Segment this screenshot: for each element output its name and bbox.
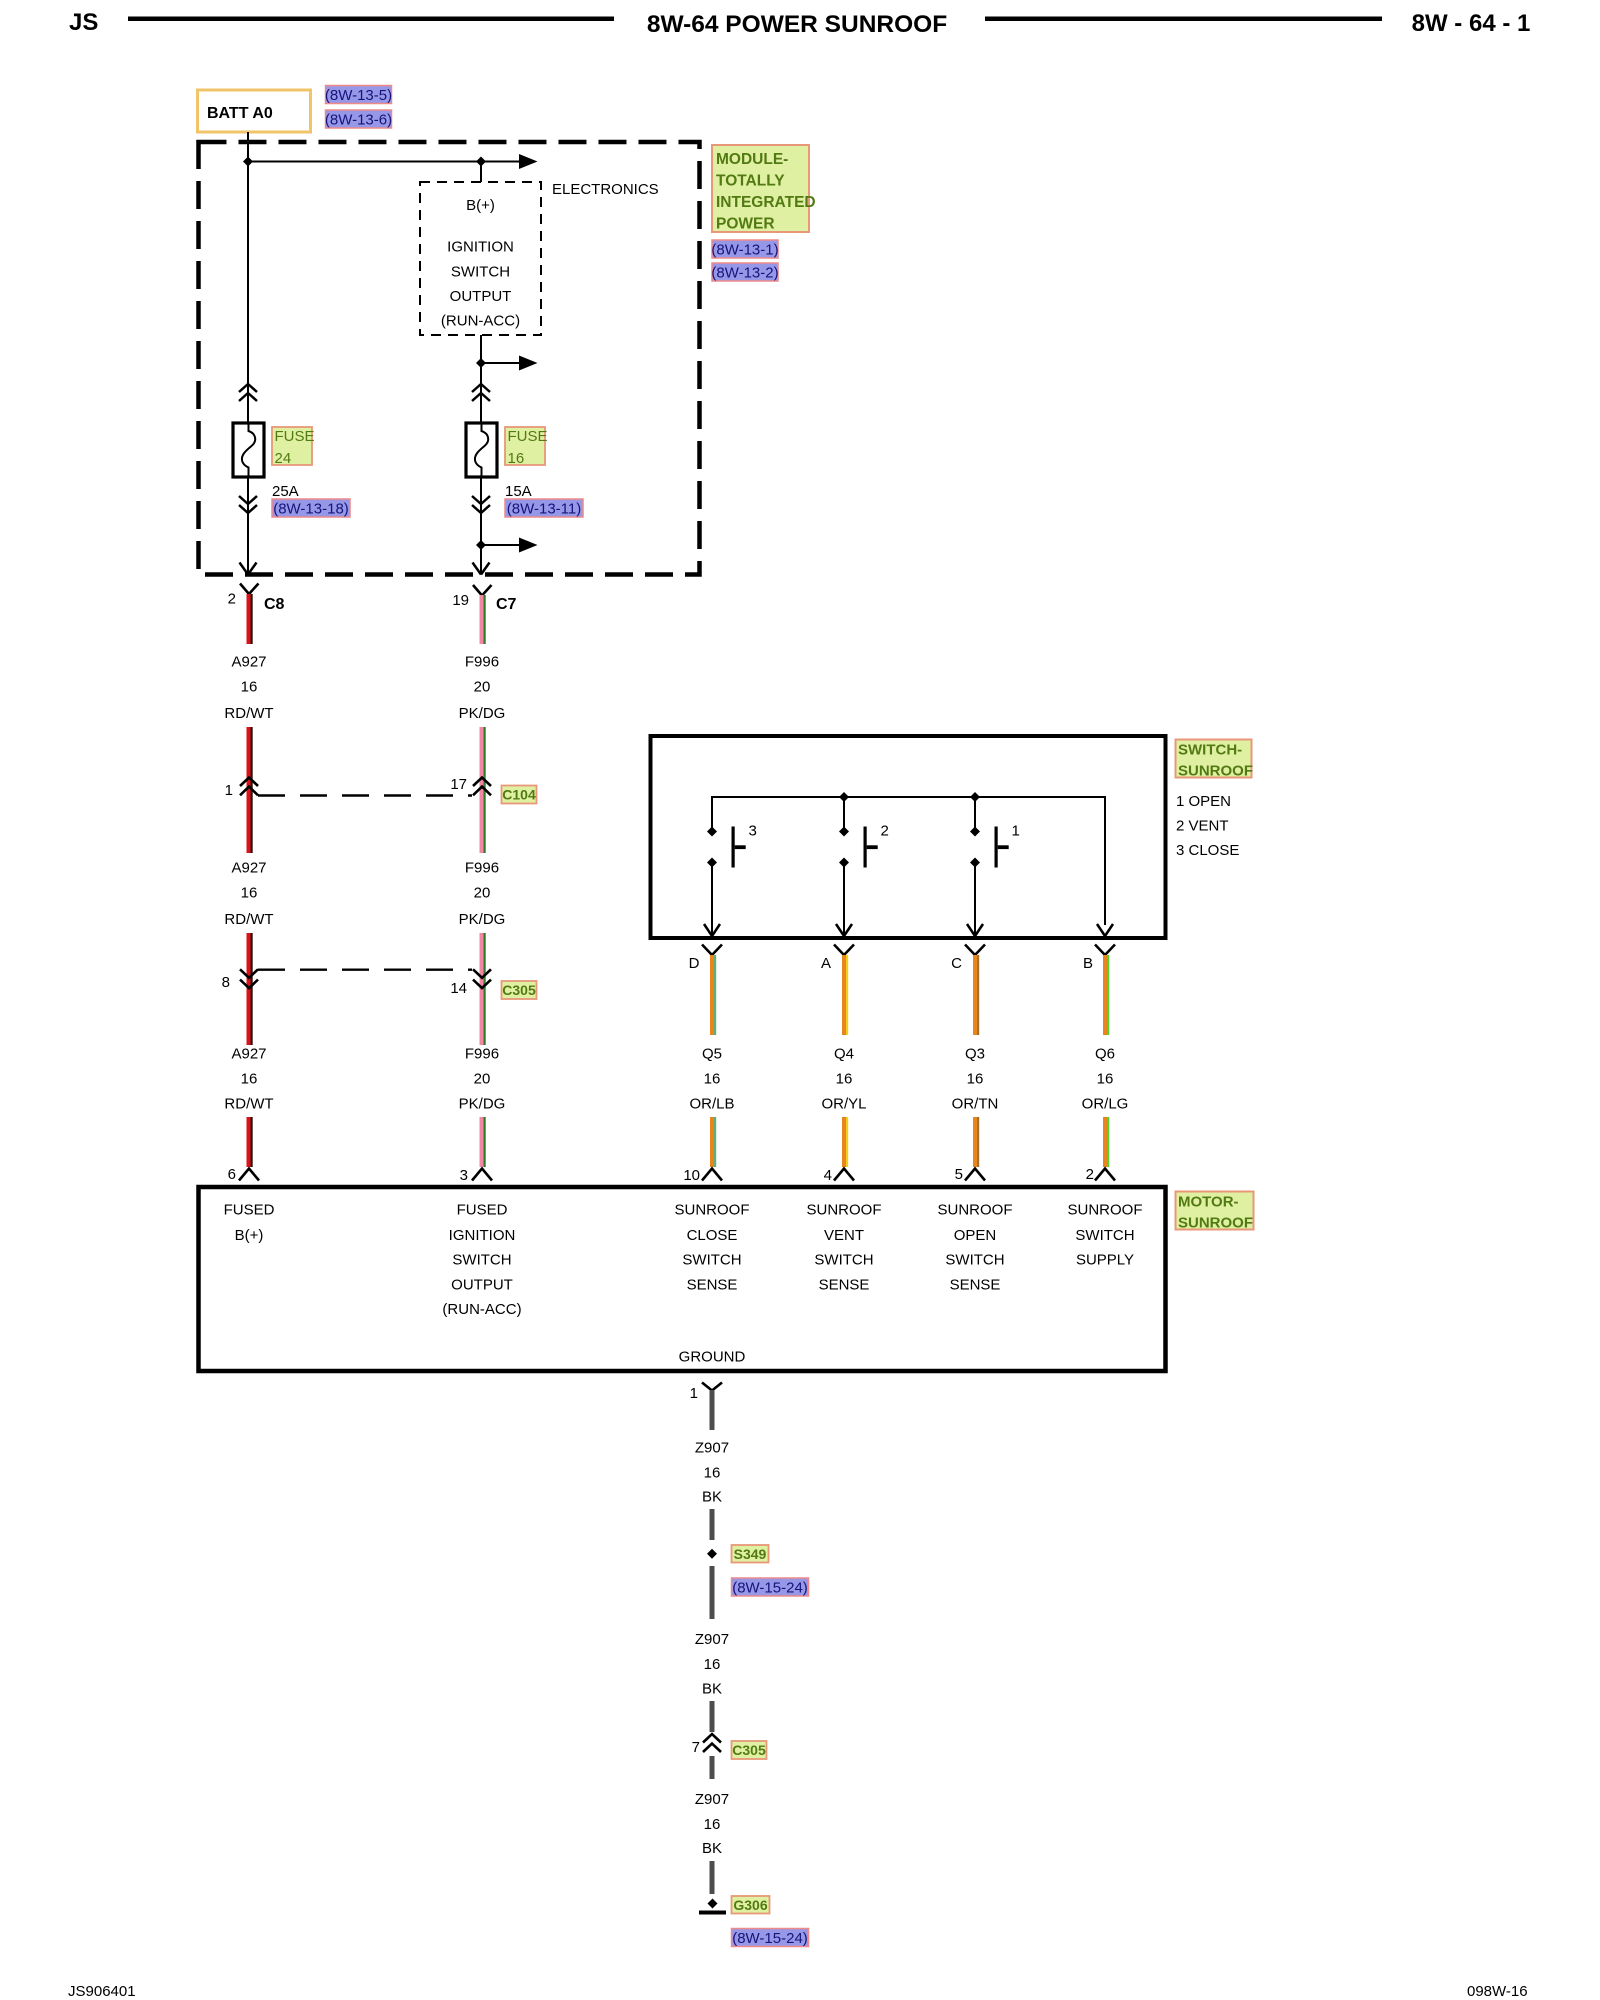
wire Z907 segment 2: [710, 1509, 715, 1540]
svg-text:B(+): B(+): [235, 1227, 264, 1244]
link 8W-13-6: [325, 110, 392, 129]
label C104: [502, 786, 537, 804]
link 8W-13-5: [325, 86, 392, 105]
svg-text:20: 20: [474, 1071, 491, 1088]
wire Q4 16 OR/YL segment 1: [842, 955, 848, 1035]
svg-text:16: 16: [241, 679, 258, 696]
label FUSE 24: [272, 427, 315, 467]
svg-text:F996: F996: [465, 654, 499, 671]
wire BATT A0 to bus: [247, 132, 249, 162]
svg-text:C8: C8: [264, 596, 285, 613]
svg-text:16: 16: [704, 1071, 721, 1088]
header rule right: [985, 17, 1382, 22]
label C305: [502, 981, 537, 999]
svg-text:8W - 64 - 1: 8W - 64 - 1: [1412, 10, 1531, 37]
wire F996 segment 2: [480, 727, 486, 853]
svg-text:4: 4: [824, 1167, 832, 1184]
svg-text:16: 16: [508, 450, 525, 467]
label S349: [732, 1545, 769, 1563]
svg-text:16: 16: [241, 1071, 258, 1088]
svg-text:SWITCH: SWITCH: [814, 1252, 873, 1269]
electronics B(+) ignition switch output dashed box: [420, 182, 541, 335]
label wire A927 16 RD/WT run2: [224, 860, 273, 929]
svg-text:FUSED: FUSED: [457, 1202, 508, 1219]
wire Q6 16 OR/LG segment 1: [1103, 955, 1109, 1035]
wire Q5 segment 2: [710, 1117, 716, 1167]
svg-text:C7: C7: [496, 596, 517, 613]
wire Z907 segment 6: [710, 1861, 715, 1894]
pin name SUNROOF SWITCH SUPPLY: [1068, 1202, 1143, 1269]
svg-text:RD/WT: RD/WT: [224, 911, 273, 928]
svg-text:SUPPLY: SUPPLY: [1076, 1252, 1134, 1269]
wire junction to B(+) box: [480, 162, 482, 183]
svg-text:CLOSE: CLOSE: [687, 1227, 738, 1244]
svg-text:16: 16: [836, 1071, 853, 1088]
svg-text:B(+): B(+): [466, 197, 495, 214]
svg-text:098W-16: 098W-16: [1467, 1983, 1528, 2000]
svg-text:SENSE: SENSE: [950, 1277, 1001, 1294]
svg-text:F996: F996: [465, 1046, 499, 1063]
svg-text:(8W-15-24): (8W-15-24): [732, 1930, 808, 1947]
svg-text:RD/WT: RD/WT: [224, 1096, 273, 1113]
wire right branch B(+) out: [480, 335, 482, 423]
wire break chevrons: [239, 384, 257, 401]
pin name SUNROOF VENT SWITCH SENSE: [807, 1202, 882, 1294]
svg-text:IGNITION: IGNITION: [449, 1227, 516, 1244]
svg-text:IGNITION: IGNITION: [447, 239, 514, 256]
connector C8 pin 2: [228, 584, 285, 614]
wire F996 segment 4: [480, 1117, 486, 1167]
svg-text:Z907: Z907: [695, 1631, 729, 1648]
connector pin 4 into motor: [824, 1167, 854, 1184]
svg-text:POWER: POWER: [716, 216, 775, 233]
svg-text:FUSE: FUSE: [508, 428, 548, 445]
connector C7 pin 19: [452, 585, 516, 613]
svg-text:OUTPUT: OUTPUT: [451, 1277, 513, 1294]
svg-text:Q3: Q3: [965, 1046, 985, 1063]
svg-text:C: C: [951, 955, 962, 972]
svg-text:16: 16: [704, 1816, 721, 1833]
fuse F16: [466, 423, 497, 477]
svg-text:SENSE: SENSE: [687, 1277, 738, 1294]
svg-text:1: 1: [225, 782, 233, 799]
svg-text:1: 1: [690, 1385, 698, 1402]
module TIPM dashed outline: [199, 142, 700, 575]
in-line connector C104 dashed tie: [258, 794, 472, 796]
svg-text:(RUN-ACC): (RUN-ACC): [441, 313, 520, 330]
svg-text:GROUND: GROUND: [679, 1349, 746, 1366]
connector D: [689, 945, 722, 973]
node bus junction A: [839, 792, 849, 802]
svg-text:16: 16: [704, 1656, 721, 1673]
wire F996 segment 3: [480, 933, 486, 1045]
link 8W-13-1: [711, 240, 778, 259]
wire B branch arrowhead: [1097, 924, 1113, 936]
label C305 ground: [732, 1741, 767, 1759]
svg-text:1: 1: [1012, 823, 1020, 840]
svg-text:3: 3: [460, 1167, 468, 1184]
svg-text:14: 14: [450, 980, 467, 997]
svg-text:SUNROOF: SUNROOF: [1178, 1215, 1253, 1232]
label G306: [732, 1896, 770, 1914]
wire Q6 segment 2: [1103, 1117, 1109, 1167]
node junction at left bus: [243, 157, 253, 167]
svg-text:A: A: [821, 955, 831, 972]
svg-text:SUNROOF: SUNROOF: [1068, 1202, 1143, 1219]
svg-text:JS906401: JS906401: [68, 1983, 136, 2000]
fuse F24: [233, 423, 264, 477]
wire F996 20 PK/DG segment 1: [480, 595, 486, 644]
connector C104 pin 1 chevrons: [225, 778, 258, 800]
svg-text:VENT: VENT: [824, 1227, 864, 1244]
svg-text:BK: BK: [702, 1681, 722, 1698]
wire Z907 segment 4: [710, 1701, 715, 1732]
svg-text:(8W-13-18): (8W-13-18): [273, 501, 349, 518]
node bus junction C: [970, 792, 980, 802]
svg-text:(8W-13-2): (8W-13-2): [711, 265, 778, 282]
svg-text:C305: C305: [502, 982, 536, 998]
svg-text:16: 16: [1097, 1071, 1114, 1088]
wire left branch down to fuse 24: [247, 162, 249, 424]
svg-text:B: B: [1083, 955, 1093, 972]
connector pin 5 into motor: [955, 1166, 985, 1183]
connector A: [821, 945, 854, 973]
svg-text:SWITCH: SWITCH: [945, 1252, 1004, 1269]
node junction above B(+): [476, 157, 486, 167]
splice S349: [707, 1549, 717, 1559]
switch 1 open contacts: [970, 823, 1020, 868]
link 8W-13-2: [711, 263, 778, 282]
svg-text:PK/DG: PK/DG: [459, 911, 506, 928]
svg-text:F996: F996: [465, 860, 499, 877]
wire break chevrons: [472, 384, 490, 401]
svg-text:5: 5: [955, 1166, 963, 1183]
svg-text:16: 16: [967, 1071, 984, 1088]
svg-text:SWITCH-: SWITCH-: [1178, 742, 1242, 759]
svg-text:2 VENT: 2 VENT: [1176, 818, 1229, 835]
svg-text:BK: BK: [702, 1489, 722, 1506]
arrow ign feed continuation: [481, 362, 520, 364]
connector B: [1083, 945, 1115, 973]
label MODULE-TOTALLY INTEGRATED POWER: [712, 145, 816, 233]
connector C305 pin 14 chevrons: [450, 969, 491, 997]
wire A927 16 RD/WT segment 1: [247, 594, 253, 644]
svg-text:D: D: [689, 955, 700, 972]
legend 1 OPEN 2 VENT 3 CLOSE: [1176, 793, 1239, 859]
svg-text:6: 6: [228, 1166, 236, 1183]
pin name FUSED IGNITION SWITCH OUTPUT (RUN-ACC): [442, 1202, 521, 1319]
label wire Q4 16 OR/YL: [821, 1046, 866, 1113]
svg-text:ELECTRONICS: ELECTRONICS: [552, 181, 659, 198]
svg-text:1 OPEN: 1 OPEN: [1176, 793, 1231, 810]
svg-text:C104: C104: [502, 787, 536, 803]
svg-text:SWITCH: SWITCH: [1075, 1227, 1134, 1244]
svg-text:FUSED: FUSED: [224, 1202, 275, 1219]
svg-text:OR/LB: OR/LB: [689, 1096, 734, 1113]
motor-sunroof box: [199, 1187, 1166, 1371]
label wire Z907 16 BK run1: [695, 1440, 729, 1506]
connector pin 2 into motor: [1086, 1166, 1115, 1183]
svg-text:Z907: Z907: [695, 1440, 729, 1457]
svg-text:S349: S349: [734, 1546, 767, 1562]
wire Z907 16 BK segment 1: [710, 1390, 715, 1430]
wire Q4 segment 2: [842, 1117, 848, 1167]
svg-text:10: 10: [683, 1167, 700, 1184]
link 8W-15-24: [732, 1578, 809, 1597]
svg-text:20: 20: [474, 679, 491, 696]
svg-text:BATT A0: BATT A0: [207, 105, 273, 122]
svg-text:3 CLOSE: 3 CLOSE: [1176, 842, 1239, 859]
svg-text:(8W-13-5): (8W-13-5): [325, 87, 392, 104]
link 8W-15-24 ground: [732, 1929, 809, 1948]
connector C: [951, 945, 985, 973]
wire A branch lower with arrowhead: [836, 863, 852, 937]
svg-text:SENSE: SENSE: [819, 1277, 870, 1294]
svg-text:OUTPUT: OUTPUT: [450, 288, 512, 305]
svg-text:A927: A927: [231, 654, 266, 671]
label wire Z907 16 BK run2: [695, 1631, 729, 1698]
wire A927 segment 2: [247, 727, 253, 853]
svg-text:SUNROOF: SUNROOF: [675, 1202, 750, 1219]
connector pin 10 into motor: [683, 1167, 722, 1184]
svg-text:A927: A927: [231, 1046, 266, 1063]
wire break chevrons below fuse 24: [247, 477, 249, 573]
svg-text:3: 3: [749, 823, 757, 840]
ground G306 symbol: [699, 1899, 726, 1915]
svg-text:INTEGRATED: INTEGRATED: [716, 194, 816, 211]
wire Z907 below C305: [710, 1756, 715, 1779]
svg-text:PK/DG: PK/DG: [459, 1096, 506, 1113]
svg-text:15A: 15A: [505, 483, 532, 500]
arrowhead into C8: [240, 563, 257, 575]
connector pin 6 into motor: [228, 1166, 259, 1183]
switch 2 vent contacts: [839, 823, 889, 868]
svg-text:8W-64 POWER SUNROOF: 8W-64 POWER SUNROOF: [647, 11, 947, 38]
svg-text:OR/YL: OR/YL: [821, 1096, 866, 1113]
svg-text:SWITCH: SWITCH: [682, 1252, 741, 1269]
wire A927 segment 4: [247, 1117, 253, 1167]
svg-text:7: 7: [692, 1739, 700, 1756]
svg-text:2: 2: [1086, 1166, 1094, 1183]
wire C branch upper: [974, 797, 976, 828]
label wire F996 20 PK/DG run2: [459, 860, 506, 929]
wire A927 segment 3: [247, 933, 253, 1045]
connector C104 pin 17 chevrons: [450, 776, 491, 795]
pin name SUNROOF OPEN SWITCH SENSE: [938, 1202, 1013, 1294]
svg-text:C305: C305: [732, 1742, 766, 1758]
svg-text:Z907: Z907: [695, 1791, 729, 1808]
svg-text:(8W-15-24): (8W-15-24): [732, 1580, 808, 1597]
switch supply bus: [712, 797, 1105, 925]
svg-text:OPEN: OPEN: [954, 1227, 997, 1244]
switch-sunroof box: [651, 736, 1166, 938]
node junction below B(+): [476, 358, 486, 368]
svg-text:MOTOR-: MOTOR-: [1178, 1194, 1239, 1211]
svg-text:OR/LG: OR/LG: [1082, 1096, 1129, 1113]
svg-text:16: 16: [241, 885, 258, 902]
svg-text:17: 17: [450, 776, 467, 793]
switch 3 close contacts: [707, 823, 757, 868]
arrow run-acc feed continuation: [481, 544, 520, 546]
wire fuse 16 down: [480, 477, 482, 573]
link 8W-13-18: [272, 499, 350, 518]
connector pin 3 into motor: [460, 1167, 492, 1184]
svg-text:TOTALLY: TOTALLY: [716, 173, 785, 190]
svg-text:(8W-13-11): (8W-13-11): [507, 501, 581, 518]
label wire Q3 16 OR/TN: [952, 1046, 999, 1113]
connector C305 pin 7 chevrons: [692, 1734, 721, 1756]
svg-text:BK: BK: [702, 1840, 722, 1857]
svg-text:Q4: Q4: [834, 1046, 854, 1063]
arrow feed continuation: [519, 154, 538, 169]
connector pin 1 ground out: [690, 1383, 722, 1403]
in-line connector C305 dashed tie: [258, 969, 472, 971]
label wire Q6 16 OR/LG: [1082, 1046, 1129, 1113]
svg-text:SWITCH: SWITCH: [452, 1252, 511, 1269]
pin name FUSED B(+): [224, 1202, 275, 1245]
label wire F996 20 PK/DG run3: [459, 1046, 506, 1113]
wire A branch upper: [843, 797, 845, 828]
svg-text:(RUN-ACC): (RUN-ACC): [442, 1301, 521, 1318]
label SWITCH-SUNROOF: [1176, 740, 1254, 780]
battery feed box BATT A0: [198, 90, 311, 132]
svg-text:8: 8: [222, 974, 230, 991]
wire bus to B(+) arrow: [248, 161, 520, 163]
node junction lower right: [476, 540, 486, 550]
label MOTOR-SUNROOF: [1176, 1192, 1254, 1232]
svg-text:Q6: Q6: [1095, 1046, 1115, 1063]
svg-text:2: 2: [881, 823, 889, 840]
svg-text:PK/DG: PK/DG: [459, 705, 506, 722]
svg-text:SUNROOF: SUNROOF: [807, 1202, 882, 1219]
pin name SUNROOF CLOSE SWITCH SENSE: [675, 1202, 750, 1294]
label wire Q5 16 OR/LB: [689, 1046, 734, 1113]
svg-text:A927: A927: [231, 860, 266, 877]
svg-text:24: 24: [275, 450, 292, 467]
svg-text:RD/WT: RD/WT: [224, 705, 273, 722]
svg-text:OR/TN: OR/TN: [952, 1096, 999, 1113]
label wire A927 16 RD/WT run1: [224, 654, 273, 723]
wire D branch lower with arrowhead: [704, 863, 720, 937]
svg-text:Q5: Q5: [702, 1046, 722, 1063]
wire Q3 16 OR/TN segment 1: [973, 955, 979, 1035]
wire Z907 segment 3: [710, 1566, 715, 1619]
svg-text:SUNROOF: SUNROOF: [1178, 763, 1253, 780]
connector C305 pin 8 chevrons: [222, 969, 258, 991]
label wire Z907 16 BK run3: [695, 1791, 729, 1857]
svg-text:(8W-13-6): (8W-13-6): [325, 112, 392, 129]
wire C branch lower with arrowhead: [967, 863, 983, 937]
label FUSE 16: [505, 427, 548, 467]
svg-text:20: 20: [474, 885, 491, 902]
svg-text:19: 19: [452, 592, 469, 609]
link 8W-13-11: [505, 499, 583, 518]
svg-text:SWITCH: SWITCH: [451, 263, 510, 280]
svg-text:16: 16: [704, 1465, 721, 1482]
svg-text:(8W-13-1): (8W-13-1): [711, 242, 778, 259]
arrowhead into C7: [473, 563, 490, 575]
label wire F996 20 PK/DG run1: [459, 654, 506, 723]
label wire A927 16 RD/WT run3: [224, 1046, 273, 1113]
svg-text:2: 2: [228, 591, 236, 608]
svg-text:FUSE: FUSE: [275, 428, 315, 445]
wire Q3 segment 2: [973, 1117, 979, 1167]
wire Q5 16 OR/LB segment 1: [710, 955, 716, 1035]
svg-text:SUNROOF: SUNROOF: [938, 1202, 1013, 1219]
svg-text:G306: G306: [733, 1897, 767, 1913]
svg-text:MODULE-: MODULE-: [716, 151, 788, 168]
svg-text:25A: 25A: [272, 483, 299, 500]
svg-text:JS: JS: [69, 9, 98, 36]
header rule left: [128, 17, 614, 22]
